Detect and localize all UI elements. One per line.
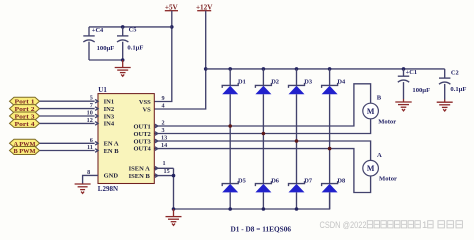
U1 pin arrows left: [95, 99, 98, 152]
svg-text:B PWM: B PWM: [14, 149, 36, 155]
svg-text:Port 4: Port 4: [15, 122, 35, 128]
wire GND pin 8: [83, 175, 98, 184]
wire +12V top rail: [206, 68, 445, 70]
node Port1: [10, 97, 40, 106]
svg-text:D1 - D8 = 11EQS06: D1 - D8 = 11EQS06: [231, 225, 292, 233]
svg-text:M: M: [367, 107, 375, 116]
svg-text:D1: D1: [238, 79, 246, 86]
junction OUT1/D1: [228, 124, 232, 128]
junction +12V top rail: [204, 67, 208, 71]
junction ISEN B: [172, 174, 176, 178]
svg-text:D6: D6: [271, 178, 280, 185]
junction OUT3/D3: [295, 139, 299, 143]
svg-text:13: 13: [161, 135, 167, 142]
junction D1 top: [228, 67, 232, 71]
svg-text:L298N: L298N: [98, 185, 118, 193]
ground below GND pin: [75, 184, 91, 193]
diode D3: [289, 69, 313, 184]
svg-text:EN B: EN B: [104, 148, 120, 155]
svg-text:1: 1: [163, 160, 166, 167]
wire +5V rail down to VSS: [155, 11, 172, 102]
junction C5 top: [121, 25, 125, 29]
svg-text:IN2: IN2: [104, 106, 114, 113]
svg-text:14: 14: [161, 142, 167, 149]
svg-text:15: 15: [164, 168, 170, 175]
svg-text:100µF: 100µF: [97, 45, 115, 52]
wire ISEN vertical to bottom rail: [173, 168, 175, 209]
svg-text:VSS: VSS: [139, 99, 151, 106]
node A PWM: [10, 139, 40, 148]
svg-text:IN3: IN3: [104, 113, 115, 120]
svg-text:C5: C5: [129, 27, 137, 34]
svg-text:VS: VS: [142, 106, 151, 113]
diode D5: [222, 178, 246, 209]
ground below C2: [437, 100, 453, 112]
svg-text:D2: D2: [271, 79, 279, 86]
diode D6: [255, 178, 279, 209]
svg-text:C2: C2: [451, 69, 459, 76]
node Port3: [10, 112, 40, 121]
svg-text:+C4: +C4: [92, 27, 104, 34]
U1 pin arrows right: [155, 124, 158, 177]
diode D4: [322, 69, 346, 184]
diode D1: [222, 69, 246, 184]
junction D3 top: [295, 67, 299, 71]
wire OUT1 to motor B top: [155, 84, 371, 126]
junction D4 top: [328, 67, 332, 71]
svg-text:D8: D8: [337, 178, 345, 185]
wire ISEN A: [155, 167, 174, 169]
wire A PWM to EN A: [40, 142, 95, 144]
svg-text:OUT4: OUT4: [133, 146, 151, 153]
junction OUT4/D4: [328, 147, 332, 151]
svg-text:9: 9: [162, 95, 165, 102]
svg-text:Motor: Motor: [379, 176, 397, 183]
junction C1 top: [402, 67, 406, 71]
capacitor C4: [83, 27, 114, 60]
svg-text:D5: D5: [238, 178, 246, 185]
wire Port1 to IN1: [40, 100, 95, 102]
wire Port4 to IN4: [40, 122, 95, 124]
wire bottom rail: [174, 192, 330, 209]
svg-text:2: 2: [162, 120, 165, 127]
diode D2: [255, 69, 279, 184]
watermark CSDN: [320, 220, 463, 231]
wire B PWM to EN B: [40, 150, 95, 152]
diode D7: [289, 178, 313, 209]
op-amp U1 L298N body: [98, 86, 155, 193]
wire Port2 to IN2: [40, 108, 95, 110]
U1 pin names left: [104, 99, 120, 180]
ground below C1: [395, 99, 411, 111]
svg-text:EN A: EN A: [104, 141, 119, 148]
svg-text:IN1: IN1: [104, 99, 114, 106]
capacitor C5: [117, 27, 143, 60]
svg-text:0.1µF: 0.1µF: [450, 86, 466, 93]
svg-text:M: M: [367, 164, 375, 173]
ground below C5: [115, 60, 131, 76]
svg-text:1: 1: [422, 220, 427, 231]
svg-text:+C1: +C1: [406, 69, 417, 76]
junction D2 top: [262, 67, 266, 71]
capacitor C2: [439, 69, 466, 100]
svg-text:U1: U1: [98, 86, 107, 94]
svg-text:OUT3: OUT3: [133, 139, 151, 146]
wire ISEN B: [155, 175, 174, 177]
svg-text:4: 4: [162, 103, 165, 110]
wire Port3 to IN3: [40, 115, 95, 117]
U1 pin numbers left: [87, 95, 93, 176]
svg-text:OUT1: OUT1: [133, 123, 150, 130]
svg-text:D3: D3: [304, 79, 312, 86]
wire +12V down to VS: [155, 11, 206, 109]
svg-text:D4: D4: [337, 79, 346, 86]
U1 pin numbers right: [161, 95, 170, 175]
junction +5V/C4C5: [170, 25, 174, 29]
svg-text:B: B: [377, 95, 382, 102]
junction C5 bottom: [121, 58, 125, 62]
capacitor C1: [398, 69, 430, 99]
motor B: [363, 95, 396, 126]
U1 pin names right: [129, 99, 152, 180]
wire OUT3 to motor A top: [155, 141, 371, 160]
junction D6 bottom: [262, 207, 266, 211]
power +5V: [165, 3, 179, 11]
ground below bottom rail: [166, 209, 182, 225]
node Port2: [10, 105, 40, 114]
svg-text:100µF: 100µF: [412, 87, 430, 94]
node Port4: [10, 119, 40, 128]
svg-text:A: A: [377, 152, 382, 159]
junction bottom rail ground: [172, 207, 176, 211]
power +12V: [196, 3, 213, 11]
wire C4 C5 bottom rail: [89, 59, 123, 61]
motor A: [363, 152, 397, 183]
svg-text:D7: D7: [304, 178, 313, 185]
svg-text:ISEN B: ISEN B: [129, 173, 151, 180]
diode D8: [322, 178, 346, 209]
svg-text:GND: GND: [104, 173, 119, 180]
node B PWM: [10, 147, 40, 156]
svg-text:CSDN @2022: CSDN @2022: [320, 220, 367, 231]
svg-text:Motor: Motor: [378, 119, 396, 126]
junction D7 bottom: [295, 207, 299, 211]
wire OUT2 to motor B bottom: [155, 119, 371, 134]
wire C4 C5 top rail: [89, 26, 172, 28]
svg-text:3: 3: [162, 127, 165, 134]
wire OUT4 to motor A bottom: [155, 149, 371, 193]
junction D5 bottom: [228, 207, 232, 211]
svg-text:ISEN A: ISEN A: [129, 166, 150, 173]
svg-text:OUT2: OUT2: [133, 131, 150, 138]
junction OUT2/D2: [262, 132, 266, 136]
svg-text:IN4: IN4: [104, 121, 115, 128]
svg-text:0.1µF: 0.1µF: [127, 44, 143, 51]
